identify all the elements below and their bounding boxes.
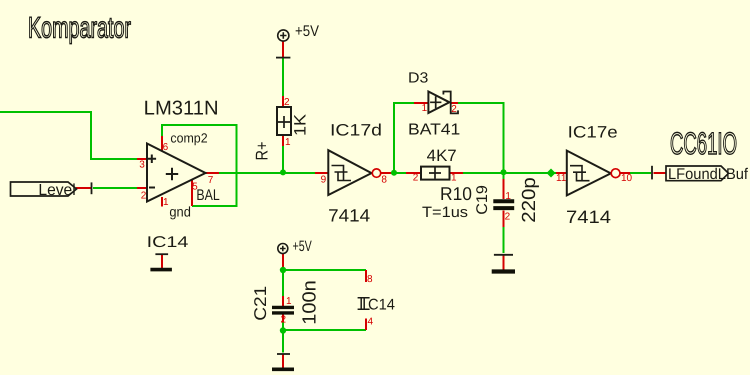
svg-text:7: 7 <box>208 175 214 186</box>
svg-text:11: 11 <box>556 173 567 184</box>
svg-text:1: 1 <box>286 296 292 307</box>
svg-text:IC17e: IC17e <box>568 124 618 142</box>
svg-text:BAT41: BAT41 <box>408 122 460 139</box>
svg-text:1: 1 <box>422 103 428 114</box>
svg-text:C14: C14 <box>368 296 395 313</box>
svg-text:4K7: 4K7 <box>427 147 457 165</box>
svg-text:1K: 1K <box>292 114 310 136</box>
svg-text:IC17d: IC17d <box>330 122 382 140</box>
svg-text:220p: 220p <box>519 177 540 223</box>
svg-text:CC61IO: CC61IO <box>670 126 737 161</box>
svg-text:6: 6 <box>163 142 169 153</box>
svg-text:1: 1 <box>285 137 291 148</box>
svg-text:Komparator: Komparator <box>28 12 131 45</box>
svg-text:LFoundLBuf: LFoundLBuf <box>668 166 749 183</box>
svg-text:8: 8 <box>367 274 373 285</box>
svg-text:D3: D3 <box>408 70 428 86</box>
svg-text:2: 2 <box>505 212 511 223</box>
svg-text:2: 2 <box>413 172 419 183</box>
svg-text:5: 5 <box>192 182 198 193</box>
svg-text:R+: R+ <box>253 141 272 160</box>
svg-text:C21: C21 <box>251 286 270 321</box>
svg-text:LM311N: LM311N <box>144 98 219 120</box>
svg-text:7414: 7414 <box>566 207 611 227</box>
svg-text:gnd: gnd <box>169 204 191 220</box>
svg-text:C19: C19 <box>474 185 491 215</box>
svg-text:3: 3 <box>139 160 145 171</box>
svg-text:T=1us: T=1us <box>422 204 468 221</box>
svg-text:+5V: +5V <box>295 23 320 40</box>
svg-text:10: 10 <box>621 173 633 184</box>
svg-text:2: 2 <box>451 104 457 115</box>
svg-text:comp2: comp2 <box>170 131 207 146</box>
svg-text:+5V: +5V <box>293 238 312 255</box>
svg-text:9: 9 <box>321 174 327 185</box>
svg-text:100n: 100n <box>300 280 321 325</box>
svg-text:2: 2 <box>141 191 147 202</box>
svg-text:1: 1 <box>505 191 511 202</box>
svg-text:1: 1 <box>163 197 169 208</box>
svg-text:2: 2 <box>284 97 290 108</box>
svg-text:IC14: IC14 <box>147 234 189 251</box>
svg-text:4: 4 <box>368 317 374 328</box>
svg-text:R10: R10 <box>440 183 472 204</box>
svg-text:8: 8 <box>381 174 387 185</box>
svg-text:2: 2 <box>281 314 287 325</box>
svg-text:BAL: BAL <box>196 187 220 204</box>
svg-text:7414: 7414 <box>328 206 370 226</box>
svg-text:1: 1 <box>451 172 457 183</box>
svg-text:Level: Level <box>38 182 75 199</box>
